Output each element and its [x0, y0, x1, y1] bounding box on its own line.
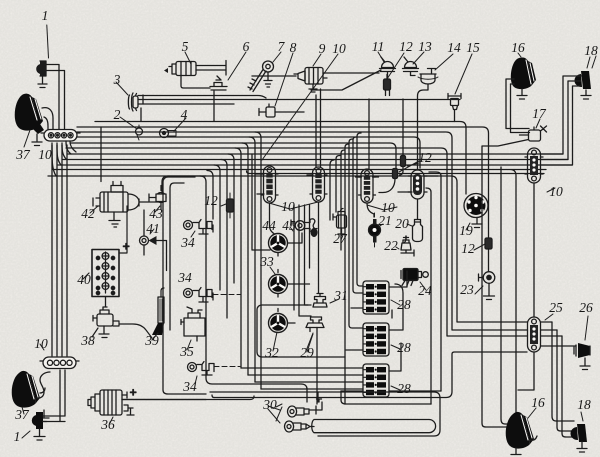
- generator 36: [88, 385, 206, 423]
- sender 31: [313, 294, 339, 308]
- svg-text:5: 5: [182, 39, 189, 54]
- svg-text:10: 10: [34, 336, 48, 351]
- connector 3: [116, 82, 138, 111]
- connector 10: [41, 130, 80, 142]
- diode 41: [140, 210, 167, 271]
- connector 10 bottom: [40, 344, 79, 369]
- wire lamp1 to connector: [46, 65, 65, 131]
- wire right column: [426, 172, 441, 404]
- svg-text:12: 12: [399, 39, 413, 54]
- gauge 33: [269, 275, 288, 294]
- svg-text:33: 33: [259, 254, 274, 269]
- fuse block 28 b: [363, 323, 389, 356]
- connector 15: [448, 94, 461, 122]
- lamp block 10 d: [408, 170, 427, 199]
- label leaders: [185, 52, 590, 423]
- svg-text:4: 4: [181, 107, 188, 122]
- wire gauge connects: [270, 203, 310, 323]
- svg-text:22: 22: [384, 238, 398, 253]
- fuse box 40: [83, 206, 130, 297]
- svg-text:+: +: [122, 239, 130, 253]
- horn 14: [418, 69, 438, 91]
- clamp 2: [120, 117, 143, 140]
- ignition coil 27: [333, 209, 347, 241]
- headlamp 37: [15, 94, 44, 147]
- svg-text:28: 28: [397, 340, 411, 355]
- connector 26: [574, 316, 590, 370]
- svg-text:40: 40: [77, 272, 91, 287]
- wire bottom harness: [122, 352, 527, 436]
- svg-text:28: 28: [397, 381, 411, 396]
- wire harness: [48, 122, 572, 413]
- svg-text:34: 34: [177, 270, 192, 285]
- clamp 4: [160, 118, 187, 138]
- svg-text:29: 29: [300, 345, 314, 360]
- svg-text:9: 9: [319, 41, 326, 56]
- svg-text:6: 6: [243, 39, 250, 54]
- terminal strip 10 e: [525, 148, 555, 192]
- svg-text:36: 36: [100, 417, 115, 432]
- wire strip leaders: [269, 202, 397, 210]
- fuse 12 mid: [221, 193, 234, 218]
- svg-text:17: 17: [532, 106, 547, 121]
- gauge 44: [269, 234, 288, 253]
- terminal strip 10 a: [261, 166, 278, 203]
- fuse block 28 c: [363, 364, 389, 397]
- relay 42: [90, 127, 139, 227]
- headlamp 16 top: [511, 57, 536, 99]
- svg-text:37: 37: [15, 147, 31, 162]
- svg-text:11: 11: [372, 39, 385, 54]
- wire bottom right: [482, 146, 576, 437]
- svg-text:31: 31: [333, 288, 348, 303]
- svg-text:34: 34: [182, 379, 197, 394]
- lamp 18 top: [574, 56, 596, 99]
- svg-text:23: 23: [460, 282, 474, 297]
- switch 34c: [188, 362, 241, 385]
- svg-text:43: 43: [149, 206, 163, 221]
- svg-text:14: 14: [447, 40, 461, 55]
- switch 13: [403, 57, 419, 76]
- svg-text:30: 30: [262, 397, 277, 412]
- fuse 12 right: [474, 238, 492, 272]
- svg-text:25: 25: [549, 300, 563, 315]
- switch 17: [483, 119, 547, 146]
- fuel sender 45: [290, 219, 318, 237]
- svg-text:18: 18: [584, 43, 598, 58]
- motor 9: [252, 68, 379, 93]
- wire relay to right: [139, 176, 206, 202]
- wire from connector 3: [138, 95, 460, 121]
- svg-text:2: 2: [114, 107, 121, 122]
- lamp 18 bottom: [570, 412, 587, 452]
- svg-text:12: 12: [461, 241, 475, 256]
- svg-text:20: 20: [395, 216, 409, 231]
- svg-text:1: 1: [42, 8, 49, 23]
- switch 11: [380, 57, 396, 80]
- wire strip bottoms: [255, 89, 438, 293]
- svg-text:19: 19: [459, 223, 473, 238]
- svg-text:24: 24: [418, 283, 432, 298]
- svg-text:37: 37: [14, 407, 30, 422]
- svg-text:8: 8: [290, 40, 297, 55]
- dispenser 20: [407, 220, 423, 242]
- spark plugs 30: [276, 392, 436, 433]
- wire headlamp16 to switch17: [506, 79, 530, 133]
- svg-text:16: 16: [511, 40, 525, 55]
- switch 23: [475, 272, 495, 300]
- horn 7: [248, 61, 274, 92]
- switch 34a: [184, 220, 214, 238]
- wire sender box: [252, 154, 345, 357]
- svg-text:26: 26: [579, 300, 593, 315]
- svg-text:38: 38: [80, 333, 95, 348]
- svg-text:+: +: [129, 385, 137, 399]
- svg-text:12: 12: [418, 150, 432, 165]
- wire strip e down: [518, 183, 534, 390]
- svg-text:18: 18: [577, 397, 591, 412]
- terminal strip 10 c: [359, 169, 376, 203]
- relay 35: [181, 307, 205, 350]
- svg-text:44: 44: [262, 218, 276, 233]
- terminal strip 10 b: [310, 167, 327, 202]
- fuse 12 pair: [379, 99, 419, 193]
- fuse 43: [149, 186, 166, 213]
- wire block loops: [341, 271, 441, 404]
- svg-text:3: 3: [113, 72, 121, 87]
- svg-text:15: 15: [466, 40, 480, 55]
- headlamp 37 bottom: [12, 371, 50, 422]
- lamp 1 bottom: [22, 370, 65, 440]
- valve 22: [396, 236, 414, 256]
- svg-text:45: 45: [282, 218, 296, 233]
- lamp 1: [36, 25, 48, 88]
- wire drops to blocks: [241, 368, 363, 389]
- breaker 39: [152, 288, 164, 340]
- svg-text:39: 39: [144, 333, 159, 348]
- switch 34b: [184, 288, 242, 303]
- svg-text:35: 35: [179, 344, 194, 359]
- svg-text:10: 10: [549, 184, 563, 199]
- svg-text:1: 1: [14, 429, 21, 444]
- sensor 8: [259, 104, 304, 117]
- svg-text:32: 32: [264, 345, 279, 360]
- heater motor 24: [401, 269, 428, 291]
- headlamp 16 bottom: [506, 408, 537, 455]
- svg-text:10: 10: [281, 199, 295, 214]
- wire lamp18 down: [541, 76, 582, 165]
- svg-text:21: 21: [378, 213, 392, 228]
- svg-text:10: 10: [381, 200, 395, 215]
- svg-text:10: 10: [332, 41, 346, 56]
- flasher 21: [369, 213, 384, 247]
- distributor 19: [464, 194, 488, 231]
- svg-text:16: 16: [531, 395, 545, 410]
- svg-text:27: 27: [333, 231, 348, 246]
- wire headlamp to connector: [42, 108, 53, 130]
- wire mid verticals S1-S2: [294, 205, 311, 316]
- motor 5: [164, 61, 226, 76]
- bracket 6: [181, 76, 227, 122]
- connector 25: [528, 314, 554, 352]
- wire harness drops left: [52, 141, 76, 176]
- svg-text:34: 34: [180, 235, 195, 250]
- fuse block 28 a: [363, 281, 389, 314]
- wire middle drops: [200, 132, 261, 389]
- fuse 12 top: [311, 70, 391, 96]
- wire enclosure left: [163, 177, 206, 394]
- svg-text:12: 12: [204, 193, 218, 208]
- pump 38: [92, 297, 152, 338]
- sender 29: [306, 317, 324, 404]
- svg-text:28: 28: [397, 297, 411, 312]
- svg-text:13: 13: [418, 39, 432, 54]
- svg-text:42: 42: [81, 206, 95, 221]
- gauge 32: [269, 314, 288, 333]
- wire center verticals: [330, 133, 363, 404]
- svg-text:10: 10: [38, 147, 52, 162]
- wire left column: [52, 145, 67, 356]
- svg-text:41: 41: [146, 221, 160, 236]
